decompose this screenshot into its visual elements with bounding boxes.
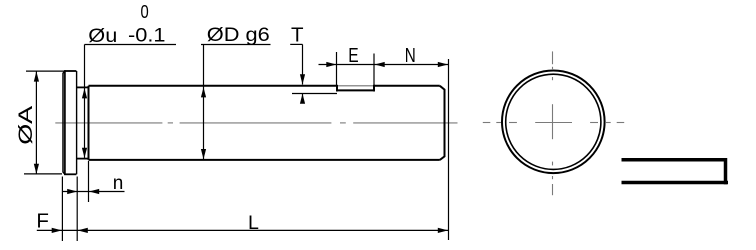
dimension T (290, 44, 337, 103)
svg-text:T: T (291, 24, 304, 47)
svg-text:-0.1: -0.1 (128, 25, 166, 47)
svg-text:Øu: Øu (88, 25, 117, 47)
dimension ØD g6 (201, 45, 271, 160)
svg-text:E: E (348, 44, 358, 67)
end view centerlines (483, 51, 624, 195)
dimensions F and L (37, 177, 449, 242)
svg-text:L: L (248, 212, 259, 234)
dimension ØA (24, 71, 64, 174)
bracket detail bottom right (622, 158, 729, 184)
svg-text:ØD g6: ØD g6 (207, 25, 270, 46)
dimension E and N (319, 52, 449, 240)
neck section u (77, 86, 89, 160)
svg-text:N: N (405, 44, 416, 67)
dimension n (62, 161, 124, 202)
flange head (63, 70, 77, 175)
svg-text:F: F (36, 209, 49, 232)
dimension Øu (85, 45, 177, 158)
centerline side view (55, 122, 457, 124)
notch silhouette line (338, 85, 373, 87)
notch flat (337, 85, 375, 92)
end view chamfer circle (506, 74, 601, 169)
svg-text:ØA: ØA (15, 106, 37, 145)
svg-text:n: n (113, 173, 124, 194)
shaft body (89, 86, 445, 160)
svg-text:0: 0 (141, 1, 149, 22)
end view outer circle (502, 71, 605, 174)
